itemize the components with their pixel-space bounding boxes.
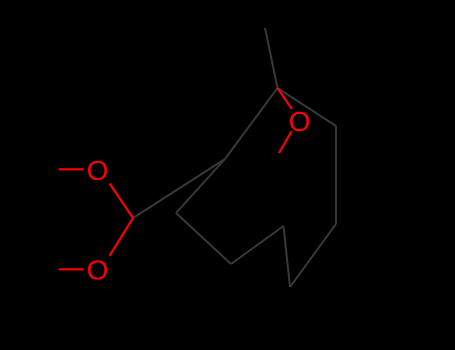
- bond C1 to O3: [278, 88, 292, 109]
- bond O3 to methyl: [279, 131, 292, 153]
- wire: ring bond C7-C6: [290, 224, 336, 287]
- wire: methyl bond on C1 (top): [265, 28, 278, 88]
- wire: ring bond C8-C7: [335, 126, 337, 224]
- bond methyl to O2: [59, 268, 84, 270]
- bond methyl to O1: [59, 168, 84, 170]
- wire: ring bond C2-C1: [225, 88, 278, 159]
- wire: ring bond C4-C3: [176, 213, 231, 264]
- bond O1 to acetal C: [110, 184, 133, 219]
- bond O2 to acetal C: [110, 218, 133, 256]
- wire: ring bond C6-C5: [284, 226, 291, 287]
- wire: ring bond C1-C8: [278, 88, 337, 126]
- svg-text:O: O: [289, 106, 311, 137]
- wire: ring bond C3-C2: [176, 159, 225, 213]
- svg-text:O: O: [87, 255, 109, 286]
- wire: ring bond C5-C4: [231, 226, 284, 264]
- svg-text:O: O: [87, 155, 109, 186]
- wire: bond acetal C to ring C2: [133, 159, 225, 218]
